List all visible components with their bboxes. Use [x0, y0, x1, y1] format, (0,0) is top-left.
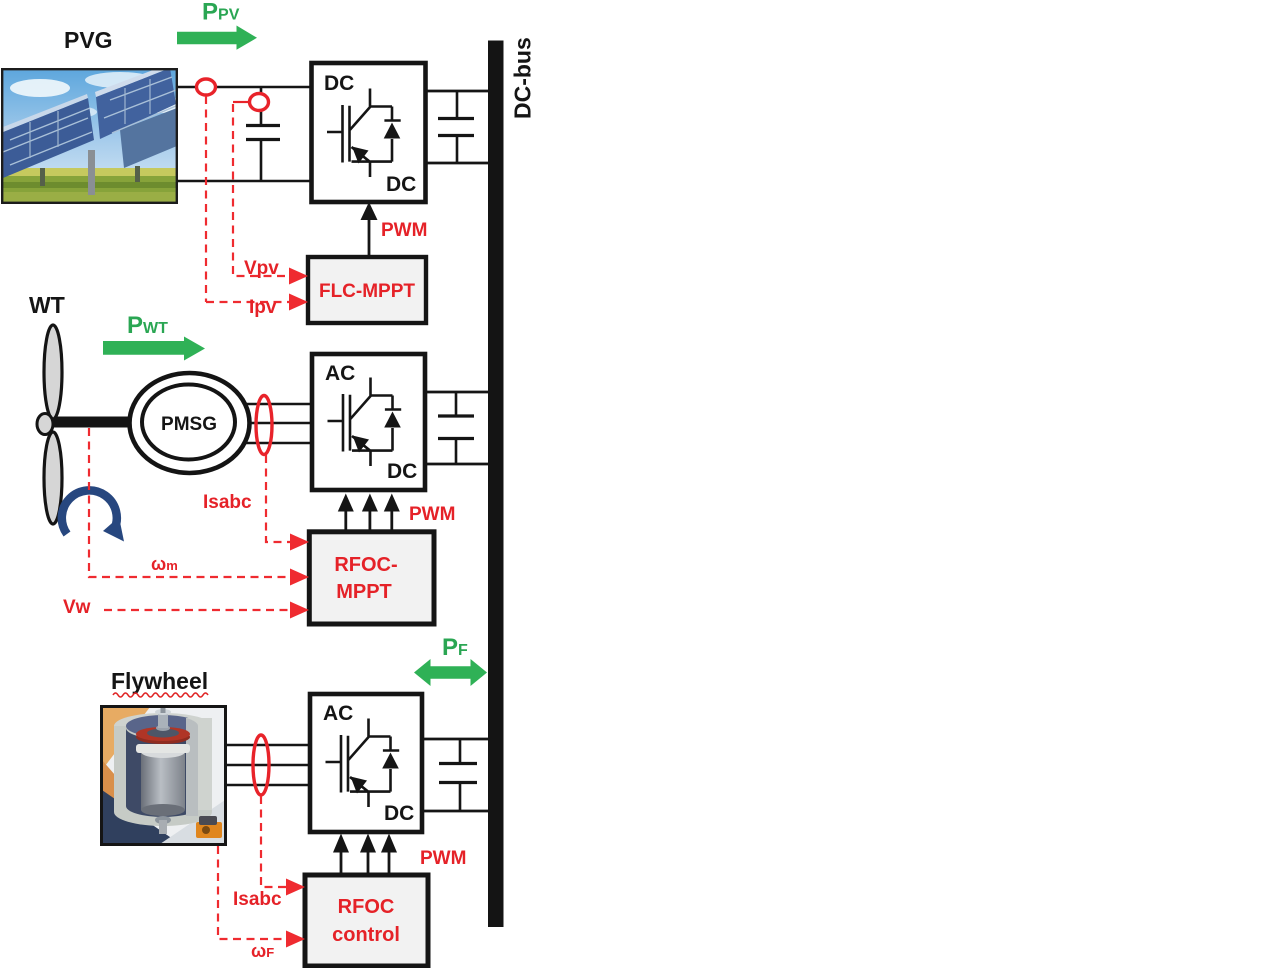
capacitor C4: [439, 739, 477, 811]
PWM arrows into U3: [333, 834, 397, 876]
wire phase a PMSG: [245, 403, 312, 405]
svg-text:Vpv: Vpv: [244, 258, 279, 279]
svg-text:DC: DC: [387, 460, 417, 483]
Isabc dashed feedback (WT): [266, 455, 290, 542]
svg-text:PVG: PVG: [64, 27, 113, 53]
omega_m dashed feedback: [89, 428, 290, 577]
flywheel photo: [102, 704, 226, 845]
current sensor ellipse (flywheel): [253, 735, 269, 795]
converter U3 AC/DC box: [310, 694, 422, 832]
Vpv arrowhead: [289, 268, 308, 285]
svg-text:Flywheel: Flywheel: [111, 668, 208, 694]
PMSG generator outer ellipse: [130, 373, 250, 473]
wire U3 to bus bottom: [422, 810, 488, 813]
P_WT green power arrow: [103, 337, 205, 361]
wire PV bottom: [177, 180, 312, 183]
PWM arrows into U2: [338, 494, 400, 532]
spellcheck squiggle under Flywheel: [113, 693, 208, 697]
wire phase b flywheel: [226, 764, 310, 766]
svg-text:PMSG: PMSG: [161, 414, 217, 435]
svg-text:RFOC: RFOC: [338, 896, 395, 918]
svg-text:DC-bus: DC-bus: [510, 37, 536, 119]
Vw dashed feedback: [104, 609, 290, 611]
svg-text:Isabc: Isabc: [233, 889, 282, 910]
RFOC control box: [305, 875, 428, 966]
capacitor C1: [246, 87, 280, 181]
wire U1 to bus bottom: [426, 162, 489, 165]
wire U1 to bus top: [426, 90, 489, 93]
svg-text:control: control: [332, 924, 400, 946]
wire U2 to bus top: [425, 391, 488, 394]
Isabc dashed feedback (flywheel): [261, 796, 286, 887]
svg-text:DC: DC: [386, 173, 416, 196]
wire phase c PMSG: [245, 442, 312, 444]
rotation arrow (blue): [62, 490, 117, 534]
wire U2 to bus bottom: [425, 463, 488, 466]
RFOC-MPPT controller box: [309, 532, 434, 624]
P_PV green power arrow: [177, 26, 257, 50]
svg-text:PWM: PWM: [381, 220, 427, 241]
Ipv dashed feedback wire: [206, 96, 289, 302]
converter U1 DC/DC box: [312, 63, 426, 202]
svg-text:Ipv: Ipv: [249, 297, 277, 318]
svg-text:PWM: PWM: [409, 504, 455, 525]
FLC-MPPT controller box: [308, 257, 426, 323]
wire PV top: [177, 86, 312, 89]
current sensor ellipse Isabc (WT): [256, 396, 272, 455]
svg-text:FLC-MPPT: FLC-MPPT: [319, 281, 415, 302]
Ipv arrowhead: [289, 294, 308, 311]
svg-text:DC: DC: [324, 72, 354, 95]
svg-text:WT: WT: [29, 292, 65, 318]
svg-text:AC: AC: [325, 362, 355, 385]
wire phase a flywheel: [226, 744, 310, 746]
wind turbine blade top: [44, 325, 62, 419]
U2 IGBT symbol: [328, 378, 402, 467]
PWM arrow into U1: [368, 218, 371, 257]
DC bus bar: [488, 41, 504, 928]
omega_F dashed feedback: [218, 846, 286, 939]
capacitor C2: [438, 91, 474, 163]
PMSG generator inner ellipse: [142, 385, 235, 460]
converter U2 AC/DC box: [312, 354, 425, 490]
Vpv dashed feedback wire: [233, 104, 289, 276]
voltage sensor circle (Vpv): [250, 94, 269, 111]
U1 IGBT symbol: [327, 89, 401, 178]
wire phase c flywheel: [226, 784, 310, 786]
svg-text:Vw: Vw: [63, 597, 91, 618]
svg-text:DC: DC: [384, 802, 414, 825]
svg-text:MPPT: MPPT: [336, 581, 392, 603]
svg-text:AC: AC: [323, 702, 353, 725]
svg-text:PWM: PWM: [420, 848, 466, 869]
wire U3 to bus top: [422, 738, 488, 741]
svg-text:Isabc: Isabc: [203, 492, 252, 513]
wind turbine hub: [37, 414, 53, 435]
wire phase b PMSG: [249, 422, 312, 424]
wind turbine blade bottom: [44, 432, 62, 524]
wind turbine shaft: [48, 417, 132, 428]
svg-text:RFOC-: RFOC-: [334, 554, 397, 576]
U3 IGBT symbol: [326, 719, 400, 808]
capacitor C3: [438, 392, 474, 464]
sensor stub wire: [233, 101, 249, 103]
PV generator photo: [2, 64, 188, 203]
P_F double arrow: [414, 659, 487, 686]
current sensor circle (Ipv): [197, 79, 216, 95]
